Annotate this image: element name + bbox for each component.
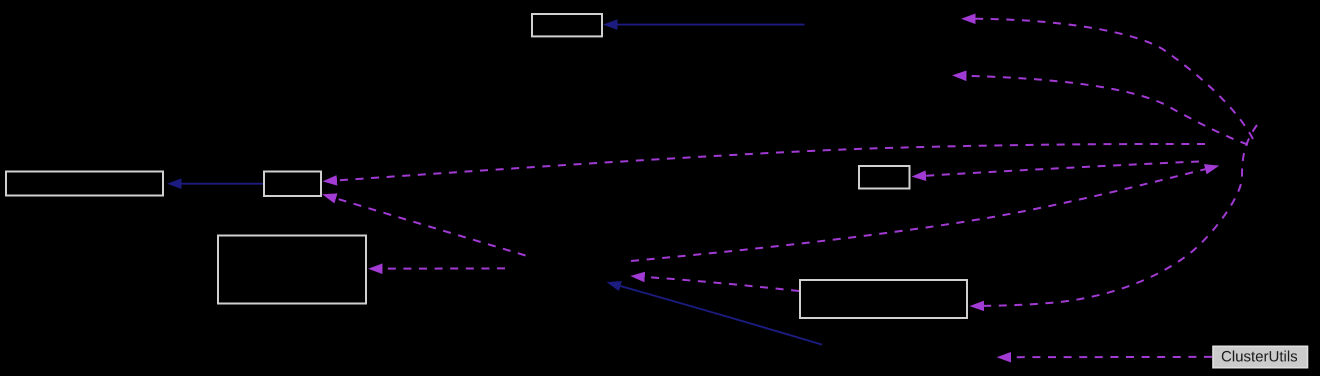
usage edge E1 (curve to top arrowhead) — [976, 19, 1254, 139]
inheritance arrow S2 (diagonal into invisible node) — [621, 286, 823, 345]
node box B2 (left long) — [6, 172, 163, 196]
node ClusterUtils — [1213, 346, 1308, 367]
usage edge L3 (up-right to arrowhead pointing right) — [631, 169, 1205, 261]
usage edge DB4 (into B4) — [383, 267, 506, 269]
node box B3 (small mid-left) — [264, 172, 321, 197]
usage edge D5 (into B5) — [926, 162, 1199, 176]
usage edge DC (from ClusterUtils going left) — [1011, 356, 1212, 358]
usage edge D3b (diagonal into B3 lower) — [336, 198, 526, 255]
usage edge E2 (curve to second arrowhead) — [967, 76, 1249, 145]
usage edge DL (long line into B3 upper) — [337, 144, 1205, 180]
node box B6 (bottom middle) — [800, 280, 967, 318]
inheritance arrow S3 (into B2) — [182, 183, 264, 185]
usage edge BC (big right curve into B6) — [984, 125, 1257, 306]
node box B5 (small middle) — [859, 166, 910, 189]
inheritance arrow S1 (into B1) — [618, 24, 805, 26]
node box B1 (top) — [532, 14, 602, 36]
usage edge DB6 (from B6 left to invisible node) — [645, 277, 799, 291]
node box B4 (big left) — [218, 236, 366, 304]
